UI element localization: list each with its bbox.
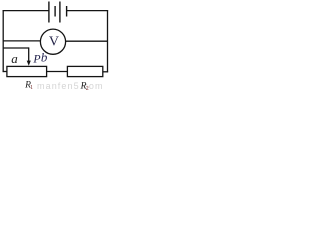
- wire: rheostat to R2: [47, 71, 68, 73]
- rheostat R1 body: [7, 66, 47, 76]
- svg-text:a: a: [11, 51, 18, 66]
- wire: top-right horizontal from battery to right rail: [67, 10, 109, 12]
- battery (two cells) long plate 1: [48, 2, 50, 23]
- svg-text:V: V: [49, 35, 59, 50]
- svg-text:2: 2: [86, 86, 89, 92]
- svg-text:manfen5.com: manfen5.com: [37, 81, 104, 91]
- wire: top-left horizontal from left rail to battery: [3, 10, 49, 12]
- wire: voltmeter left lead: [3, 40, 40, 42]
- wire: left rail vertical: [2, 10, 4, 72]
- resistor R2 body: [67, 66, 102, 76]
- wire: R2 to right rail: [103, 71, 108, 73]
- rheostat wiper arrow P (shaft): [28, 47, 30, 61]
- battery long plate 2: [59, 2, 61, 23]
- wire: voltmeter right lead: [66, 40, 108, 42]
- battery short plate 1: [54, 6, 56, 17]
- rheostat wiper arrowhead: [27, 61, 31, 66]
- voltmeter V (circle): [40, 29, 65, 54]
- battery short plate 2: [66, 6, 68, 17]
- svg-text:1: 1: [30, 85, 33, 91]
- svg-text:b: b: [41, 49, 48, 64]
- wire: right rail vertical: [107, 10, 109, 72]
- wire: left rail stub to rheostat left terminal: [3, 71, 7, 73]
- svg-text:P: P: [32, 52, 40, 66]
- wire: wiper feed from left rail: [3, 47, 29, 49]
